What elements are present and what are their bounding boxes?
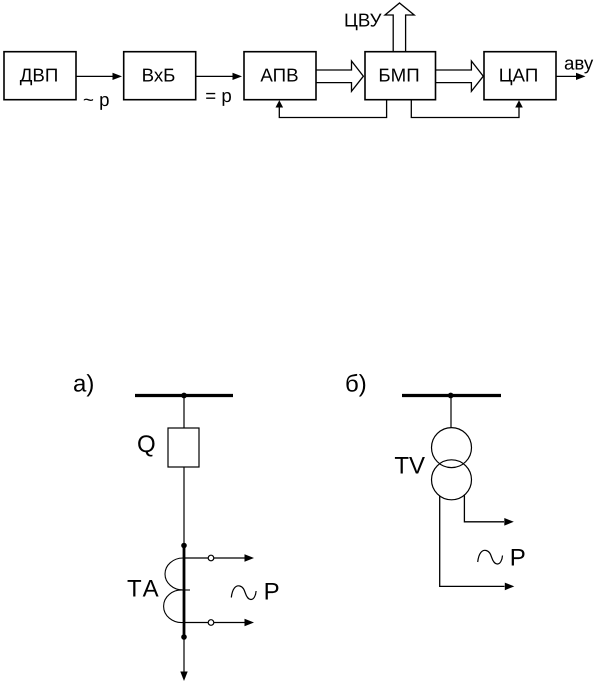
svg-text:ДВП: ДВП <box>20 65 59 86</box>
svg-text:T: T <box>127 575 142 602</box>
svg-text:а): а) <box>73 371 94 398</box>
svg-text:= p: = p <box>205 85 232 106</box>
svg-text:Q: Q <box>137 431 156 458</box>
svg-text:б): б) <box>345 371 367 398</box>
svg-text:ВхБ: ВхБ <box>142 65 176 86</box>
svg-text:ЦВУ: ЦВУ <box>344 10 382 31</box>
svg-text:A: A <box>143 575 159 602</box>
svg-text:P: P <box>510 545 526 572</box>
svg-text:АПВ: АПВ <box>260 65 298 86</box>
svg-text:аву: аву <box>564 53 594 74</box>
svg-text:~ p: ~ p <box>83 89 110 110</box>
svg-text:ЦАП: ЦАП <box>499 65 539 86</box>
svg-text:P: P <box>264 579 280 606</box>
svg-text:БМП: БМП <box>378 65 419 86</box>
svg-text:TV: TV <box>394 453 425 480</box>
